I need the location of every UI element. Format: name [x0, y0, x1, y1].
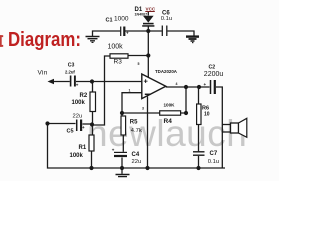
svg-text:+: + [126, 31, 129, 36]
svg-text:1N4007: 1N4007 [135, 13, 148, 17]
svg-text:0.1u: 0.1u [208, 159, 219, 165]
svg-text:1: 1 [129, 89, 131, 93]
svg-text:C1: C1 [106, 18, 113, 24]
svg-text:Diagram:: Diagram: [8, 29, 81, 51]
svg-text:R1: R1 [79, 145, 87, 151]
svg-text:2.2uf: 2.2uf [65, 69, 75, 74]
svg-text:R4: R4 [164, 118, 173, 125]
svg-text:100K: 100K [164, 103, 176, 108]
svg-text:22u: 22u [132, 159, 142, 165]
svg-text:C2: C2 [209, 65, 216, 71]
svg-text:Vin: Vin [38, 70, 48, 77]
svg-text:VCC: VCC [146, 7, 156, 12]
svg-text:TDA2020A: TDA2020A [155, 69, 178, 74]
svg-text:3: 3 [142, 107, 144, 111]
svg-text:R3: R3 [114, 59, 123, 66]
svg-text:4.7k: 4.7k [131, 128, 142, 134]
svg-text:22u: 22u [73, 114, 83, 120]
svg-text:R2: R2 [80, 93, 88, 99]
svg-text:0.1u: 0.1u [161, 16, 172, 22]
svg-text:100k: 100k [108, 44, 124, 51]
svg-text:10: 10 [204, 112, 210, 118]
svg-text:C3: C3 [68, 63, 75, 69]
svg-text:5: 5 [138, 62, 140, 66]
svg-text:100k: 100k [72, 100, 86, 106]
svg-text:4: 4 [176, 82, 178, 86]
svg-text:C5: C5 [67, 129, 74, 135]
svg-text:+: + [204, 82, 207, 87]
svg-text:+: + [112, 148, 115, 153]
svg-text:+: + [82, 125, 85, 130]
svg-text:1000: 1000 [114, 16, 129, 23]
svg-text:C7: C7 [210, 151, 218, 157]
svg-text:100k: 100k [70, 153, 84, 159]
svg-text:+: + [144, 77, 149, 86]
svg-text:C4: C4 [132, 152, 140, 158]
svg-text:R5: R5 [130, 120, 138, 126]
svg-text:+: + [76, 83, 79, 88]
svg-text:2200u: 2200u [204, 71, 224, 78]
